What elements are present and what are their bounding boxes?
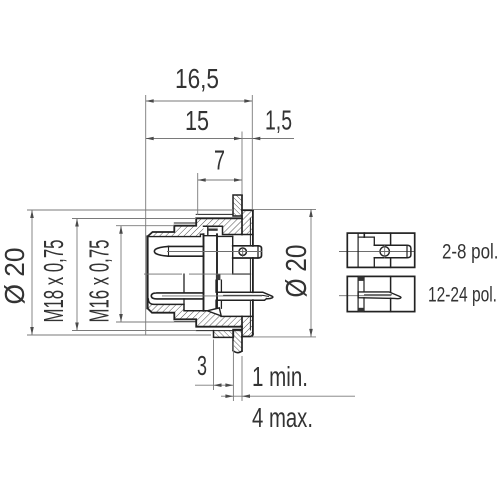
flange bottom edge rounded [242,334,253,337]
arrow M16 bottom [119,314,123,322]
svg-text:1,5: 1,5 [265,105,292,136]
arrow 1min left [225,394,233,398]
dimension line 7 [198,179,242,181]
extension line flange front top [241,132,243,196]
boss dark cap [207,229,217,231]
arrow 16,5 right [244,99,252,103]
arrow 16,5 left [146,99,154,103]
dimension line D20 right [310,209,312,337]
detail1 eyelet hole [380,247,389,256]
arrow 3 left [214,383,222,387]
lower flat contact [151,293,203,299]
flange back face [252,210,254,334]
arrow M18 bottom [75,323,79,331]
panel wall top (section hatch) [233,195,242,216]
svg-text:15: 15 [185,105,209,136]
panel wall bottom (section hatch) [233,330,242,353]
main axis centerline [144,273,250,275]
extension line D20 right top [253,209,316,211]
M18 thread crest bottom [196,330,242,332]
arrow 7 left [198,178,206,182]
dimension line D20 left [31,210,33,335]
detail2 key dark bottom [358,308,364,312]
svg-text:Ø 20: Ø 20 [0,248,30,305]
flange bottom (section hatch) [242,316,253,336]
arrow M18 top [75,219,79,227]
svg-text:7: 7 [214,145,225,176]
insert retaining tooth [207,308,221,316]
insulator rear face [216,234,218,309]
extension line flange back [251,95,253,210]
insulator front face [203,234,205,311]
body outer profile top [148,218,243,236]
eyelet hole cross lines [242,246,244,257]
detail1 eyelet bar [374,245,411,258]
dimension line 16,5 [146,100,253,102]
svg-text:16,5: 16,5 [175,63,219,94]
arrow D20L top [30,210,34,218]
svg-text:4 max.: 4 max. [252,402,313,433]
svg-text:1 min.: 1 min. [252,361,308,392]
shell front face [146,237,148,309]
detail2 lug fold line [365,294,392,296]
arrow 15 right [234,137,242,141]
detail2 key dark top [358,276,364,281]
M16 thread crest top [174,222,196,224]
detail1 boss block [358,237,374,267]
pin cone base line [168,246,170,256]
dimension line 15 and 1,5 [146,138,294,140]
contact carrier right edge [233,236,251,274]
fixing nut bottom (section hatch) [214,331,234,338]
detail2 slot walls [358,276,364,311]
detail2 solder lug [358,292,401,299]
detail1 insulator face [357,233,359,267]
extension line D20 right bottom [251,336,316,338]
key slot walls [216,280,221,309]
extension line panel left bottom [232,341,234,401]
detail view 12-24 pol box [347,276,414,311]
svg-text:2-8 pol.: 2-8 pol. [442,240,499,264]
extension line nut left [213,340,215,391]
svg-text:12-24 pol.: 12-24 pol. [428,283,497,307]
detail1 top tab [363,233,365,237]
flange front face / panel right edge bottom [241,316,243,351]
upper contact pin shaft [169,246,204,256]
arrow D20R top [309,209,313,217]
arrow 15 left [146,137,154,141]
M16 thread crest bottom [174,321,196,323]
svg-text:Ø 20: Ø 20 [281,245,313,298]
rear cavity ledge top [204,226,253,234]
lower contact centerline [162,295,262,297]
arrow M16 top [119,226,123,234]
eyelet bar end cap line [257,246,259,258]
extension line M18 top [72,218,196,220]
flange back chamfer line [249,218,251,330]
flange top (section hatch) [242,210,253,234]
bore ceiling top [148,234,204,236]
svg-text:3: 3 [197,350,207,381]
svg-text:M16 x 0,75: M16 x 0,75 [84,240,115,323]
extension line panel right bottom [241,356,243,401]
solder lug fold line [224,295,269,296]
panel top outline [233,195,242,216]
solder eyelet terminal bar [233,246,262,258]
connector body bottom wall (section hatch) [148,299,243,327]
solder lug terminal [217,292,273,300]
extension line M16 bottom [116,321,174,323]
eyelet terminal centerline [167,251,262,253]
arrow D20L bottom [30,327,34,335]
bore floor bottom with fillet [148,299,253,316]
extension line front face [145,95,147,335]
insulator top edge and boss [204,226,218,235]
arrow 1min right [242,394,250,398]
flange front face / panel right edge top [241,195,243,235]
dimension line 1min 4max [221,395,355,397]
upper contact pin tip cone [154,246,168,256]
extension line M18 bottom [72,330,196,332]
detail view 1 centerline [339,251,415,253]
detail1 hole cross [378,245,391,258]
body outer profile bottom [148,308,243,327]
arrow D20R bottom [309,329,313,337]
fixing nut outline [214,331,234,338]
detail view 2 centerline [339,295,391,297]
polarizing key dark block [216,274,221,280]
extension line M18 start [197,173,199,215]
extension line D20 left top [27,209,233,211]
dimension line 3 [195,384,233,386]
extension line D20 left bottom [27,334,211,336]
M18 thread crest top [196,213,233,215]
eyelet hole [239,248,246,255]
dimension line M16 [120,226,122,322]
extension line M16 top [116,225,174,227]
detail2 back face [390,276,392,311]
detail1 back face [390,233,392,267]
detail view 2-8 pol box [347,233,414,267]
flange top edge [242,209,253,211]
connector body top wall (section hatch) [148,218,243,236]
contact carrier top edge [218,235,233,237]
dimension line M18 [76,219,78,331]
detail1 bar end cap [406,245,408,258]
svg-text:M18 x 0,75: M18 x 0,75 [38,240,69,323]
panel bottom outline with break edge [233,330,242,353]
arrow 1,5 [252,137,260,141]
arrow 7 right [234,178,242,182]
arrow 3 right [225,383,233,387]
insert front wall lower variant [183,274,185,304]
